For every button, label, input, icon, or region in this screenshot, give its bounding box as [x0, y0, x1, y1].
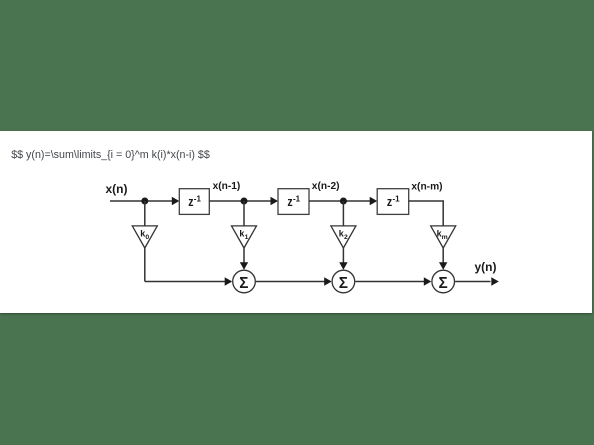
gain amplifier k1: [232, 226, 257, 248]
wire box2 to box3: [309, 200, 370, 202]
junction dot node 1: [141, 198, 148, 205]
svg-text:2: 2: [344, 234, 348, 241]
gain amplifier km: [431, 226, 456, 248]
svg-text:m: m: [442, 234, 448, 241]
svg-text:x(n-1): x(n-1): [213, 181, 241, 192]
svg-text:y(n): y(n): [475, 260, 497, 274]
gain amplifier k2: [331, 226, 356, 248]
wire k1 to summer 1: [243, 248, 245, 263]
svg-text:x(n-2): x(n-2): [312, 181, 340, 192]
svg-text:-1: -1: [194, 195, 202, 204]
wire k0 to summer 1: [145, 281, 225, 283]
svg-text:$$ y(n)=\sum\limits_{i = 0}^m: $$ y(n)=\sum\limits_{i = 0}^m k(i)*x(n-i…: [11, 149, 210, 161]
delay block z-1 second: [278, 189, 309, 215]
junction dot node 3: [340, 198, 347, 205]
gain amplifier k0: [132, 226, 157, 248]
wire box3 right then down to km: [409, 201, 444, 226]
svg-text:-1: -1: [293, 195, 301, 204]
svg-text:Σ: Σ: [239, 275, 248, 292]
svg-text:-1: -1: [393, 195, 401, 204]
summer S1: [233, 270, 256, 293]
wire node3 down to k2: [342, 201, 344, 226]
junction dot node 2: [241, 198, 248, 205]
wire node2 down to k1: [243, 201, 245, 226]
delay block z-1 third: [377, 189, 409, 215]
wire node1 down to k0: [144, 201, 146, 226]
wire km to summer 3: [442, 248, 444, 263]
white content card: [0, 131, 592, 313]
svg-text:Σ: Σ: [339, 275, 348, 292]
summer S3: [432, 270, 455, 293]
wire summer2 to summer3: [355, 281, 424, 283]
wire k0 down: [144, 248, 146, 282]
summer S2: [332, 270, 355, 293]
delay block z-1 first: [179, 189, 209, 215]
wire box1 to box2: [209, 200, 271, 202]
wire summer1 to summer2: [256, 281, 325, 283]
wire k2 to summer 2: [342, 248, 344, 263]
svg-text:x(n-m): x(n-m): [411, 181, 442, 192]
svg-text:Σ: Σ: [439, 275, 448, 292]
wire input x(n): [110, 200, 172, 202]
svg-text:0: 0: [145, 234, 149, 241]
wire output y(n): [455, 281, 490, 283]
svg-text:1: 1: [245, 234, 249, 241]
svg-text:x(n): x(n): [106, 182, 128, 196]
